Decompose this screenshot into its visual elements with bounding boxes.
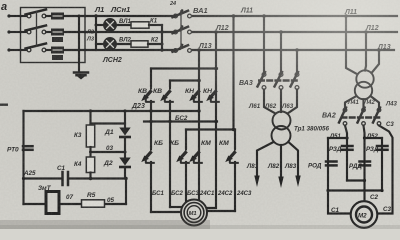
resistor K4 <box>86 157 94 173</box>
wire D1 top drop <box>124 111 126 127</box>
wire Tr1 primary 2 <box>280 90 282 113</box>
breaker VA3 pole 3 <box>291 72 299 89</box>
wire phase input L1 <box>7 14 10 17</box>
contact ROD <box>326 162 337 166</box>
wire Tr1 primary 1 <box>264 90 276 114</box>
wire Tr2 secondary 1 <box>345 96 357 108</box>
resistor K2 <box>131 41 162 47</box>
breaker VA3 pole 1 <box>258 72 266 89</box>
wire Tr2 feed 2 <box>365 32 366 71</box>
wire bar join C2 <box>347 179 365 181</box>
switch pole 2 <box>21 26 55 34</box>
wire line3 link <box>186 128 235 130</box>
wire Tr1 secondary 2 <box>280 145 282 179</box>
wire column c2 <box>169 81 171 87</box>
breaker VA2 pole 3 <box>373 108 381 126</box>
ground <box>74 73 88 80</box>
wire K4 bottom <box>89 173 91 179</box>
contact RZD1 <box>342 146 353 150</box>
wire pole2 to bar <box>364 126 365 139</box>
wire A25 line <box>24 177 63 179</box>
fuse F2 <box>51 29 85 43</box>
diode D2 <box>119 152 131 179</box>
wire K3-K4 link <box>89 147 91 157</box>
wire Tr2 feed 3 <box>372 50 380 73</box>
contact KN2 <box>206 85 220 102</box>
wire bar KV feed <box>151 67 217 69</box>
wire Tr1 secondary 3 <box>289 142 299 178</box>
wire lamp rail left <box>95 16 97 50</box>
texture overlay <box>0 0 1 1</box>
transformer Tr2 <box>355 70 374 99</box>
contact RT0 <box>23 146 33 150</box>
wire phase input L2 <box>7 30 10 33</box>
wire column c1 <box>150 69 152 87</box>
input box enclosure <box>21 8 86 63</box>
resistor K3 <box>86 125 94 147</box>
diode D1 <box>119 128 131 153</box>
edge artifact <box>0 104 8 106</box>
breaker VA1 pole 2 <box>173 25 192 34</box>
resistor K1 <box>131 22 162 28</box>
lamp VL1 <box>96 19 131 31</box>
wire VA3 drop 3 <box>296 50 298 73</box>
bus line L12 <box>85 31 174 33</box>
wire bar right pair <box>365 137 383 139</box>
wire Tr1 secondary 1 <box>257 142 274 178</box>
wire bar left pair <box>328 137 347 139</box>
wire Tr2 secondary 2 <box>362 99 364 108</box>
wire lamp rail right <box>161 25 163 50</box>
breaker VA3 linkage <box>258 79 298 81</box>
arrow L82 <box>278 177 283 189</box>
contact KN1 <box>189 85 203 102</box>
transformer Tr1 <box>272 112 291 146</box>
wire VA3 drop 1 <box>263 16 265 73</box>
contact KM2 <box>225 146 239 163</box>
wire bus drop c5 from L12 <box>206 32 216 208</box>
contact KV2 <box>160 85 174 102</box>
wire C2 drop <box>363 181 365 202</box>
contact KV1 <box>141 85 155 102</box>
motor M2 <box>351 201 378 228</box>
arrow L83 <box>295 176 300 188</box>
wire Tr2 secondary 3 <box>371 96 380 108</box>
wire RZD1 branch <box>346 138 348 181</box>
wire box bottom <box>24 203 82 205</box>
bus line L13 <box>85 49 174 51</box>
resistor R5 <box>82 200 105 207</box>
wire ROD branch <box>327 138 329 191</box>
switch linkage <box>36 11 38 47</box>
wire C3 route <box>377 126 392 214</box>
breaker VA1 pole 1 <box>173 9 192 18</box>
wire Tr1 primary 3 <box>288 90 298 114</box>
wire bar join lower <box>328 189 382 191</box>
contact RDD <box>360 162 371 166</box>
breaker VA3 pole 2 <box>275 72 283 89</box>
capacitor C1 <box>63 172 69 185</box>
fuse F1 <box>51 13 85 20</box>
wire K3-D1 top link <box>91 122 126 124</box>
lamp VL2 <box>96 38 131 50</box>
bus line L11 <box>85 15 174 17</box>
wire pole1 to bar <box>345 126 347 139</box>
contact KM1 <box>189 146 203 163</box>
wire D23 line <box>24 110 200 112</box>
breaker VA2 pole 2 <box>358 108 366 126</box>
brake magnet EmT <box>46 192 59 214</box>
wire column c3 <box>185 130 187 149</box>
breaker VA2 linkage <box>341 116 381 118</box>
breaker VA1 pole 3 <box>173 44 192 52</box>
motor M1 <box>181 200 207 226</box>
arrow L81 <box>254 176 259 188</box>
switch pole 3 <box>21 44 55 52</box>
wire RDD branch <box>363 138 365 181</box>
fuse F3 <box>51 47 85 61</box>
wire column c6 lower <box>234 130 236 149</box>
wire C1 route <box>328 191 351 214</box>
wire Tr2 feed 1 <box>346 16 357 74</box>
wire phase input L3 <box>7 48 10 51</box>
breaker VA2 pole 1 <box>339 108 347 126</box>
contact KB1 <box>141 146 155 163</box>
contact KB2 <box>176 146 190 163</box>
wire earth drop <box>78 16 80 73</box>
switch pole 1 <box>21 10 55 18</box>
wire bus drop c6 from L11 <box>232 16 234 130</box>
wire RT0 box left edge <box>22 111 24 204</box>
wire VA3 drop 2 <box>280 32 282 73</box>
wire K3 top drop <box>89 111 91 125</box>
breaker VA1 linkage <box>180 10 182 49</box>
wire bar KN feed <box>170 79 199 81</box>
wire bus drop c4 from L13 <box>198 50 200 201</box>
contact RZD2 <box>377 146 388 150</box>
wire RZD2 branch <box>381 138 383 191</box>
wire BS2 line <box>144 120 217 122</box>
